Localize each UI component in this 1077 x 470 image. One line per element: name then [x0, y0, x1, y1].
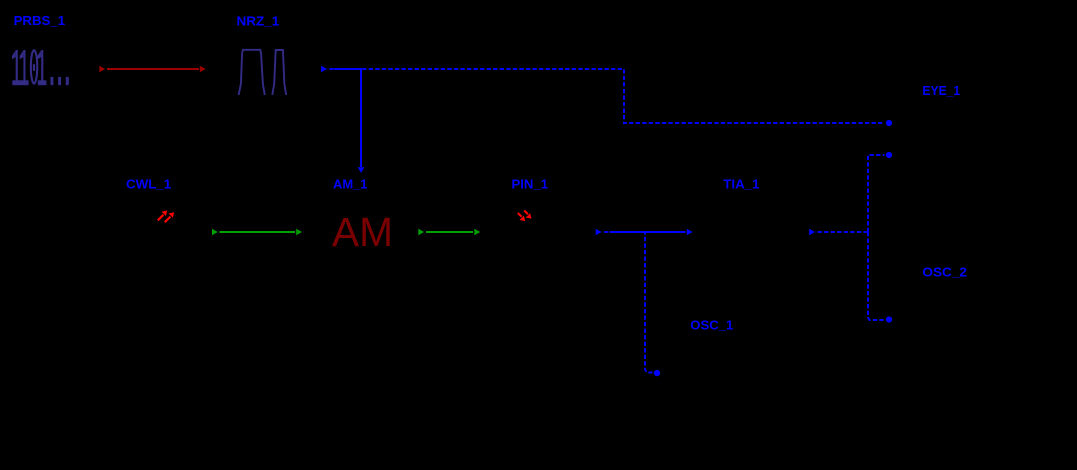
svg-text:OSC_2: OSC_2 — [922, 265, 967, 280]
svg-text:NRZ_1: NRZ_1 — [237, 14, 280, 29]
svg-text:AM_1: AM_1 — [333, 176, 368, 191]
svg-text:EYE_1: EYE_1 — [922, 83, 960, 98]
svg-text:CWL_1: CWL_1 — [126, 176, 171, 191]
svg-text:PRBS_1: PRBS_1 — [14, 13, 66, 28]
svg-text:PIN_1: PIN_1 — [512, 176, 549, 191]
svg-text:OSC_1: OSC_1 — [690, 317, 733, 332]
svg-text:AM: AM — [332, 209, 393, 255]
svg-text:TIA_1: TIA_1 — [723, 176, 759, 191]
